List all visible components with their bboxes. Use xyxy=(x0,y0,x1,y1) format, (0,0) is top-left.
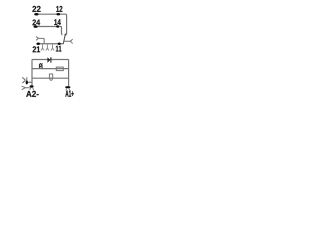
terminal dot 14 xyxy=(56,25,59,27)
resistor R1 xyxy=(56,67,63,71)
socket fork 1 under rail xyxy=(41,44,44,50)
label 14 xyxy=(54,19,61,25)
arm tip contact xyxy=(65,34,66,35)
label 22 xyxy=(32,6,40,12)
wire rail 22/12 with corner down to NC stub xyxy=(34,14,66,33)
branch wire with suppressor diode xyxy=(32,59,69,62)
label A1+ xyxy=(65,91,73,97)
terminal dot A1 xyxy=(65,86,70,88)
coil pin socket arc xyxy=(50,78,53,80)
label 24 xyxy=(33,20,41,26)
NO stub hook xyxy=(62,33,63,35)
LED arrows xyxy=(39,63,42,65)
label 12 xyxy=(56,6,62,12)
wire from left fork to 21 rail xyxy=(39,38,44,43)
LED D2 xyxy=(39,65,42,68)
terminal dot 24 xyxy=(34,25,38,28)
relay coil K1 xyxy=(49,74,52,78)
branch wire with LED and resistor xyxy=(32,68,69,70)
A2 plug pin xyxy=(26,77,28,81)
socket fork 3 under rail xyxy=(51,44,54,50)
A1 fork legs xyxy=(66,88,70,90)
A2 plug fork upper xyxy=(22,78,25,83)
branch wire with relay coil xyxy=(32,77,69,79)
left rail terminal pill xyxy=(30,85,34,87)
label 21 xyxy=(33,46,41,52)
plug fork left pole xyxy=(36,37,39,41)
socket fork 2 under rail xyxy=(46,44,49,50)
terminal dot 11 xyxy=(58,43,61,46)
terminal dot A2 xyxy=(26,80,28,84)
terminal dot 12 xyxy=(56,13,60,15)
label A2- xyxy=(26,91,38,97)
moving contact arm xyxy=(63,34,65,44)
wire terminal A2 to left rail xyxy=(28,81,32,83)
left rail fork legs xyxy=(30,88,34,90)
terminal dot 21 xyxy=(36,42,40,45)
coil box left rail xyxy=(31,60,33,85)
diode D1 xyxy=(47,57,50,63)
plug fork right pole xyxy=(70,39,73,44)
A2 clamp fork lower xyxy=(22,86,30,90)
terminal dot 22 xyxy=(34,13,38,16)
NC stub hook xyxy=(66,33,67,35)
wire from arm to right plug fork xyxy=(64,40,70,42)
wire rail 21/11 xyxy=(37,43,64,45)
coil box right rail xyxy=(68,60,70,86)
label 11 xyxy=(56,46,62,52)
wire rail 24/14 with corner down to NO stub xyxy=(34,27,61,35)
